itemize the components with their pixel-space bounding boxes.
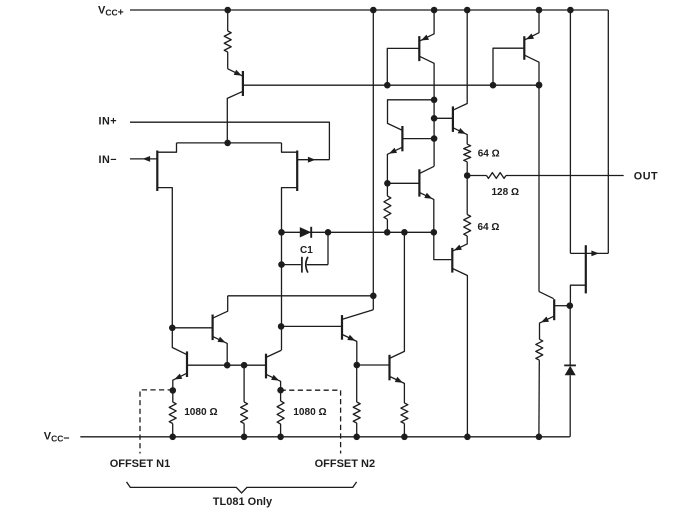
transistor Q12 (output PNP) [452, 236, 467, 437]
brace TL081 only [127, 482, 357, 493]
capacitor C1 [282, 232, 329, 272]
wire R5 to rail [356, 365, 358, 437]
diode D1 [300, 227, 311, 238]
transistor Q13 (PNP) [493, 10, 539, 292]
OFFSET N2 label [315, 458, 376, 470]
transistor Q11 (output NPN) [434, 10, 467, 144]
node rail R6 [401, 434, 408, 441]
transistor Q1 (PNP current source) [227, 69, 243, 143]
node y232 D1 cathode riser [325, 229, 332, 236]
wire R4 to rail [280, 424, 282, 437]
svg-text:IN−: IN− [99, 154, 118, 166]
IN- label [99, 154, 118, 166]
C1 label [300, 245, 313, 256]
node y232 Q7 collector [401, 229, 408, 236]
wire OUT node to R9 [467, 175, 486, 177]
node gain node [370, 293, 377, 300]
transistor Q10 (NPN) [419, 166, 434, 232]
wire R9 to OUT terminal [506, 175, 624, 177]
node rail R2 [169, 434, 176, 441]
node C1 left plate [278, 261, 285, 268]
node OUT junction [464, 172, 471, 179]
node Q13 base on bias line [490, 82, 497, 89]
transistor Q6 (gain NPN) [342, 310, 373, 365]
node Q3 emitter junction [224, 362, 231, 369]
resistor R5 1080 (Q6) [353, 402, 360, 423]
wire VCC+ to R1 [227, 10, 229, 31]
svg-text:64 Ω: 64 Ω [478, 149, 500, 160]
svg-text:IN+: IN+ [99, 116, 118, 128]
node on VCC+ rail at R1 [224, 7, 231, 14]
svg-text:OFFSET N1: OFFSET N1 [110, 458, 171, 470]
wire R3 to rail [243, 365, 245, 437]
svg-text:1080 Ω: 1080 Ω [293, 407, 326, 418]
128 ohm label [492, 187, 519, 198]
transistor J3 (JFET) [570, 245, 608, 306]
node rail R5 [353, 434, 360, 441]
64 ohm label upper [478, 149, 500, 160]
node Q11 base [431, 115, 438, 122]
node Q10 base junction [384, 180, 391, 187]
IN+ label [99, 116, 118, 128]
transistor Q8 (PNP) [387, 10, 434, 166]
VCC- label [44, 431, 70, 445]
OUT label [634, 170, 658, 182]
resistor R8 64 ohm (upper) [464, 144, 471, 162]
node y232 Q9 resistor [384, 229, 391, 236]
svg-text:128 Ω: 128 Ω [492, 187, 519, 198]
wire Q4 base line [187, 364, 266, 366]
node bias line right end [536, 82, 543, 89]
resistor R6 1080 (Q7) [401, 403, 408, 424]
node Q9 base [431, 135, 438, 142]
resistor R10 64 ohm (lower) [464, 215, 471, 237]
transistor Q14 (NPN current sink) [539, 292, 570, 340]
transistor Q9 (diode NPN) [387, 100, 434, 196]
wire node line y=232 [282, 231, 434, 233]
transistor Q4 (mirror NPN diode) [172, 328, 187, 402]
resistor R4 1080 (right) [277, 401, 284, 424]
resistor R2 1080 (left) [169, 402, 176, 424]
wire tail line [177, 142, 282, 144]
node rail R11 [536, 434, 543, 441]
resistor R11 (Q14 emitter) [536, 339, 543, 360]
node rail R3 [241, 434, 248, 441]
transistor Q3 (mirror NPN) [172, 296, 227, 365]
wire gain node line (y=296) [228, 295, 374, 297]
wire Q1 base bias line (y=85) [243, 84, 539, 86]
64 ohm label lower [478, 222, 500, 233]
node tail junction [224, 140, 231, 147]
resistor R9 128 ohm [487, 173, 507, 179]
wire OUT node to R10 [466, 176, 468, 215]
node y232 right end [431, 229, 438, 236]
svg-text:64 Ω: 64 Ω [478, 222, 500, 233]
node on VCC+ rail at Q13 emitter [536, 7, 543, 14]
wire J3 gate to VCC+ corner [607, 10, 609, 253]
wire R7 to y232 node [386, 219, 388, 232]
wire R6 to rail [403, 424, 405, 437]
wire Q6 emitter to Q7 base [357, 364, 390, 366]
node on VCC+ rail at gain-stage rail [370, 7, 377, 14]
svg-text:OFFSET N2: OFFSET N2 [315, 458, 376, 470]
node Q8 base on bias line [384, 82, 391, 89]
node on VCC+ rail at Q11 collector [464, 7, 471, 14]
wire tail to J1 source [158, 143, 177, 152]
wire Q10 base line [387, 182, 419, 184]
wire offset N1 dashed lead [140, 390, 173, 454]
wire Q12 base riser [434, 232, 452, 259]
1080 ohm label right [293, 407, 326, 418]
wire gain-stage rail from VCC+ [372, 10, 374, 310]
node Q13 collector on bias line [536, 82, 543, 89]
resistor R7 (Q9 emitter) [384, 196, 391, 219]
wire R8 to OUT node [466, 162, 468, 176]
1080 ohm label left [184, 407, 217, 418]
wire D2 anode [569, 306, 571, 365]
wire VCC- bottom supply rail [80, 436, 570, 438]
node on VCC+ rail at Q8 emitter [431, 7, 438, 14]
resistor R3 1080 (tap) [241, 402, 248, 424]
OFFSET N1 label [110, 458, 171, 470]
node offset N2 junction [277, 387, 284, 394]
node offset N1 junction [170, 387, 177, 394]
wire offset N2 dashed lead [281, 390, 341, 453]
wire R11 to rail [538, 360, 540, 437]
TL081 Only label [213, 496, 273, 508]
transistor J2 (input JFET, IN+) [282, 151, 330, 351]
wire IN+ lead [130, 122, 329, 160]
wire Q6 base line [281, 325, 342, 327]
svg-text:VCC+: VCC+ [98, 5, 124, 19]
svg-text:C1: C1 [300, 245, 313, 256]
transistor Q7 (NPN) [390, 232, 405, 403]
node J1 drain / Q3 base [169, 325, 176, 332]
node Q6 base tap [278, 323, 285, 330]
wire VCC+ top supply rail [130, 9, 608, 11]
node rail Q12 collector [464, 434, 471, 441]
wire tail to J2 source [282, 143, 297, 152]
transistor J1 (input JFET, IN-) [130, 151, 172, 328]
transistor Q5 (mirror NPN right) [266, 350, 281, 401]
resistor R1 [224, 31, 231, 52]
svg-text:1080 Ω: 1080 Ω [184, 407, 217, 418]
node R3 tap junction [241, 362, 248, 369]
VCC+ label [98, 5, 124, 19]
wire R2 to VCC- rail [172, 424, 174, 437]
svg-text:TL081 Only: TL081 Only [213, 496, 273, 508]
wire J3 drain rail [569, 10, 571, 253]
wire R1 to Q1 emitter [227, 52, 229, 69]
node Q6 emitter junction [354, 362, 361, 369]
node y232 left [278, 229, 285, 236]
diode D2 [564, 365, 576, 436]
node Q8 collector/Q9 [431, 97, 438, 104]
svg-text:VCC−: VCC− [44, 431, 70, 445]
node Q14 base / J3 source / D2 [567, 302, 574, 309]
node rail R4 [277, 434, 284, 441]
svg-text:OUT: OUT [634, 170, 658, 182]
node on VCC+ rail at J3 drain line [567, 7, 574, 14]
